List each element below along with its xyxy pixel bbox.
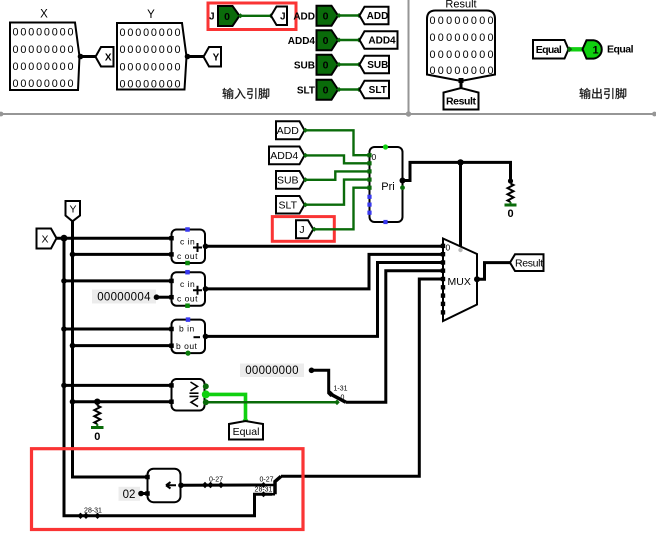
svg-text:SUB: SUB — [367, 60, 388, 71]
wire SLT pin to tunnel — [338, 88, 360, 90]
svg-text:ADD4: ADD4 — [270, 150, 298, 162]
svg-text:c out: c out — [177, 251, 198, 261]
svg-text:0: 0 — [323, 11, 329, 23]
junction Y-adder1 — [70, 252, 76, 258]
wire adder U1 out to MUX in0 — [206, 245, 444, 248]
svg-text:MUX: MUX — [448, 276, 471, 288]
wire subtractor out to MUX in2 — [206, 263, 444, 337]
wire shift merge out to MUX in4 — [281, 279, 443, 476]
junction Y-comparator — [70, 399, 76, 405]
svg-text:0: 0 — [372, 152, 377, 162]
tunnel J (main) — [296, 220, 313, 238]
junction Y-subtractor — [70, 343, 76, 349]
tunnel X (top) — [96, 47, 114, 67]
svg-text:ADD: ADD — [293, 11, 315, 22]
tunnel Equal (top) — [533, 40, 569, 59]
comparator U4 — [169, 379, 210, 411]
wire comparator < to splitter bit0 (dark green) — [206, 401, 338, 404]
svg-text:ADD: ADD — [277, 125, 300, 137]
wire SUB to Pri — [305, 171, 370, 179]
wire X pin to tunnel — [80, 55, 98, 58]
svg-text:00000000: 00000000 — [120, 62, 181, 74]
svg-text:X: X — [41, 234, 48, 246]
svg-text:28-31: 28-31 — [255, 486, 273, 493]
svg-text:b out: b out — [176, 341, 198, 351]
svg-text:28-31: 28-31 — [84, 508, 102, 515]
svg-text:Y: Y — [213, 52, 220, 63]
tunnel X (main) — [37, 229, 57, 249]
red highlight box around shifter section — [32, 449, 304, 530]
svg-text:SUB: SUB — [277, 175, 299, 187]
tunnel ADD4 (main) — [269, 147, 305, 165]
constant 02 — [119, 487, 144, 501]
splitter S2 (0-27 inline) — [202, 482, 208, 488]
wire ADD4 to Pri — [305, 155, 370, 163]
wire comparator = to Equal tunnel (bright green) — [206, 394, 246, 421]
wire adder U2 out to MUX in1 — [206, 254, 444, 289]
subcircuit adder U2 (c in/c out) — [169, 270, 208, 308]
tunnel ADD4 (top) — [360, 31, 398, 49]
output pin Result (32-bit) — [427, 0, 495, 83]
wire constant 02 to shifter — [141, 492, 148, 495]
wire constant to adder U2 — [157, 296, 172, 299]
svg-text:Result: Result — [515, 257, 543, 269]
svg-text:Pri: Pri — [381, 181, 394, 193]
pull resistor R2 (to 0) — [508, 178, 513, 183]
svg-text:00000004: 00000004 — [97, 292, 151, 304]
svg-text:SLT: SLT — [279, 200, 298, 212]
svg-text:c in: c in — [180, 237, 195, 247]
wire ADD to Pri — [305, 130, 370, 155]
junction X-subtractor — [61, 326, 67, 332]
svg-text:02: 02 — [123, 489, 136, 501]
svg-text:0: 0 — [323, 85, 329, 97]
wire constant to splitter 1-31 — [312, 370, 329, 394]
svg-text:00000000: 00000000 — [13, 27, 74, 39]
svg-text:Result: Result — [445, 0, 476, 11]
red highlight box around J pin — [208, 3, 296, 30]
junction X-adder2 — [61, 278, 67, 284]
svg-text:00000000: 00000000 — [13, 78, 74, 90]
svg-text:X: X — [40, 9, 48, 21]
wire J to Pri — [313, 188, 369, 230]
svg-text:SUB: SUB — [294, 60, 315, 71]
input pin ADD (1-bit, value 0) — [293, 6, 338, 26]
wire SLT to Pri — [305, 180, 370, 205]
text input pins (Chinese) — [223, 88, 270, 99]
wire splitter out to MUX in3 — [346, 271, 443, 403]
svg-text:X: X — [105, 52, 112, 63]
svg-text:00000000: 00000000 — [120, 27, 181, 39]
tunnel Equal (main) — [229, 421, 263, 440]
svg-text:Equal: Equal — [607, 44, 634, 56]
tunnel SLT (top) — [360, 81, 390, 99]
svg-text:SLT: SLT — [369, 85, 387, 96]
wire ADD4 pin to tunnel — [338, 39, 360, 41]
constant 00000000 — [240, 364, 314, 378]
text output pins (Chinese) — [580, 88, 627, 99]
wire Y bus vertical — [73, 221, 148, 477]
svg-text:J: J — [299, 224, 304, 236]
svg-text:Y: Y — [69, 204, 76, 216]
tunnel Y (top) — [204, 47, 222, 67]
svg-text:0-27: 0-27 — [259, 477, 273, 484]
splitter S3 (28-31 inline) — [77, 513, 83, 519]
wire SUB pin to tunnel — [338, 63, 360, 65]
input pin J (1-bit, value 0) — [209, 6, 240, 26]
svg-text:Y: Y — [147, 9, 155, 21]
wire Y pin to tunnel — [187, 55, 205, 58]
wire J pin to tunnel — [240, 15, 273, 17]
svg-text:0-27: 0-27 — [209, 477, 223, 484]
tunnel Y (main) — [66, 201, 81, 221]
output pin Equal (1-bit, value 1) — [583, 40, 634, 58]
wire ADD pin to tunnel — [338, 14, 360, 16]
svg-text:Equal: Equal — [536, 44, 562, 56]
subcircuit shifter U5 (shift left) — [145, 469, 184, 503]
wire Pri out to MUX select and pull resistor — [403, 162, 511, 181]
svg-text:SLT: SLT — [297, 85, 315, 96]
tunnel ADD (main) — [276, 121, 305, 139]
tunnel Result (main) — [510, 254, 544, 271]
subcircuit adder U1 (c in/c out) — [169, 227, 208, 265]
tunnel J (top) — [271, 7, 287, 26]
wire Result pin to tunnel — [460, 81, 463, 89]
svg-text:c out: c out — [177, 294, 198, 304]
svg-text:00000000: 00000000 — [120, 79, 181, 91]
svg-text:0: 0 — [507, 208, 513, 220]
priority encoder Pri — [367, 144, 405, 224]
svg-text:Equal: Equal — [233, 426, 260, 438]
tunnel ADD (top) — [360, 7, 389, 25]
svg-text:1-31: 1-31 — [333, 386, 347, 393]
svg-text:Result: Result — [446, 96, 477, 108]
junction X-adder1 — [61, 235, 68, 242]
input pin SUB (1-bit, value 0) — [294, 55, 338, 75]
svg-text:b in: b in — [179, 324, 195, 334]
svg-text:0: 0 — [323, 35, 329, 47]
input pin ADD4 (1-bit, value 0) — [288, 30, 338, 50]
input pin Y (32-bit) — [117, 9, 187, 91]
svg-text:0: 0 — [224, 11, 230, 23]
pull resistor R1 (to 0) at comparator input — [94, 399, 100, 405]
input pin X (32-bit) — [10, 9, 80, 91]
wire X bus vertical — [57, 238, 273, 516]
svg-text:0: 0 — [323, 60, 329, 72]
svg-text:00000000: 00000000 — [13, 44, 74, 56]
svg-text:c in: c in — [180, 279, 195, 289]
wire MUX out to Result tunnel — [477, 263, 511, 280]
svg-text:0: 0 — [94, 431, 100, 443]
tunnel Result (top) — [444, 88, 479, 110]
tunnel SLT (main) — [276, 196, 305, 214]
svg-text:0: 0 — [446, 242, 451, 252]
constant 00000004 — [92, 290, 159, 304]
svg-text:00000000: 00000000 — [120, 44, 181, 56]
subcircuit subtractor U3 (b in/b out) — [169, 317, 208, 355]
multiplexer MUX — [441, 239, 480, 322]
red highlight box around J tunnel — [272, 217, 334, 242]
splitter S1 (1-31 / 0) — [327, 386, 347, 403]
svg-text:J: J — [209, 12, 215, 23]
splitter S4 (merge 0-27 + 28-31) — [255, 476, 281, 497]
input pin SLT (1-bit, value 0) — [297, 80, 338, 100]
divider lines — [0, 0, 656, 114]
svg-text:J: J — [280, 11, 286, 22]
svg-text:1: 1 — [592, 45, 598, 57]
svg-text:ADD4: ADD4 — [288, 36, 316, 47]
tunnel SUB (main) — [276, 171, 305, 189]
wire Equal tunnel to pin (value 1) — [569, 47, 587, 51]
svg-text:ADD4: ADD4 — [368, 36, 396, 47]
wire shifter out with splitter 0-27 — [181, 484, 262, 487]
svg-text:0: 0 — [341, 395, 345, 402]
svg-text:00000000: 00000000 — [13, 61, 74, 73]
tunnel SUB (top) — [360, 56, 390, 74]
svg-text:00000000: 00000000 — [245, 365, 299, 377]
junction X-comparator — [61, 383, 67, 389]
svg-text:ADD: ADD — [367, 11, 389, 22]
